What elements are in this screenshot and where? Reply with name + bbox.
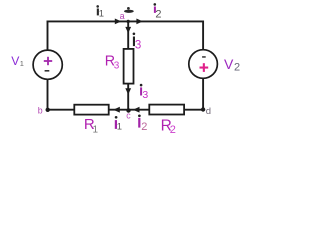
svg-text:V: V (224, 56, 234, 72)
svg-text:1: 1 (93, 125, 99, 136)
svg-text:2: 2 (170, 124, 176, 136)
svg-text:b: b (38, 106, 43, 116)
svg-text:1: 1 (117, 122, 122, 133)
svg-text:2: 2 (141, 121, 147, 133)
svg-text:3: 3 (114, 60, 120, 71)
svg-text:a: a (120, 11, 125, 21)
svg-text:3: 3 (135, 40, 141, 52)
svg-text:c: c (126, 110, 131, 120)
svg-text:3: 3 (142, 89, 148, 101)
svg-text:2: 2 (234, 62, 240, 74)
svg-text:1: 1 (99, 8, 104, 19)
svg-text:1: 1 (20, 59, 24, 68)
svg-text:2: 2 (155, 9, 161, 21)
svg-text:d: d (206, 106, 211, 117)
